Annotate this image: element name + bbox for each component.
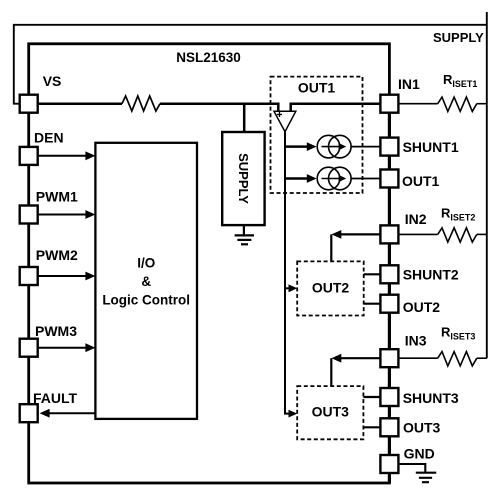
svg-text:PWM3: PWM3 xyxy=(35,323,77,339)
svg-text:SUPPLY: SUPPLY xyxy=(236,153,251,204)
svg-text:VS: VS xyxy=(43,73,62,89)
svg-text:PWM2: PWM2 xyxy=(36,247,78,263)
svg-text:IN2: IN2 xyxy=(405,211,427,227)
svg-text:OUT3: OUT3 xyxy=(312,404,350,420)
svg-text:PWM1: PWM1 xyxy=(36,189,78,205)
svg-text:IN1: IN1 xyxy=(398,76,420,92)
svg-text:OUT1: OUT1 xyxy=(402,173,440,189)
svg-text:SHUNT2: SHUNT2 xyxy=(403,267,459,283)
svg-text:IN3: IN3 xyxy=(405,333,427,349)
svg-text:SUPPLY: SUPPLY xyxy=(433,30,484,45)
svg-text:GND: GND xyxy=(404,446,435,462)
svg-text:SHUNT3: SHUNT3 xyxy=(403,390,459,406)
svg-text:DEN: DEN xyxy=(34,130,64,146)
svg-text:I/O: I/O xyxy=(137,256,155,271)
svg-text:OUT2: OUT2 xyxy=(312,280,350,296)
svg-text:&: & xyxy=(141,274,151,289)
svg-text:SHUNT1: SHUNT1 xyxy=(403,139,459,155)
svg-text:Logic Control: Logic Control xyxy=(102,293,190,308)
svg-text:OUT2: OUT2 xyxy=(403,299,441,315)
svg-text:OUT3: OUT3 xyxy=(403,420,441,436)
svg-text:FAULT: FAULT xyxy=(33,390,78,406)
svg-text:NSL21630: NSL21630 xyxy=(176,50,241,65)
svg-text:OUT1: OUT1 xyxy=(298,80,336,96)
